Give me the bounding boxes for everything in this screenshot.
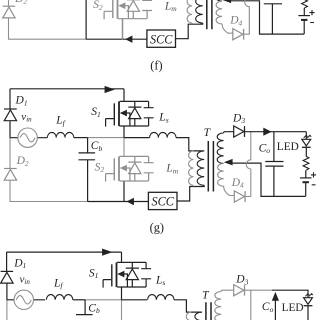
svg-text:LED: LED (282, 302, 304, 314)
svg-text:(g): (g) (150, 221, 164, 235)
svg-text:(f): (f) (150, 58, 162, 72)
